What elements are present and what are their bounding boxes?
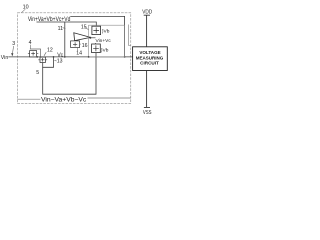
junction inner box left on wire — [88, 56, 90, 58]
svg-text:16: 16 — [82, 43, 88, 49]
wire main horizontal — [8, 56, 132, 58]
wire mid node into lower source — [95, 43, 97, 44]
top chain output wire — [70, 16, 124, 57]
wire right jog — [129, 25, 131, 46]
source box B (below wire) — [40, 57, 45, 62]
leader for 12 — [44, 52, 46, 56]
svg-text:MEASURING: MEASURING — [136, 55, 164, 61]
offset source box Va — [71, 41, 80, 48]
svg-text:)Vb: )Vb — [102, 29, 110, 35]
op-amp triangle — [74, 33, 91, 41]
svg-text:4: 4 — [29, 40, 32, 46]
junction after box A — [36, 56, 38, 58]
svg-text:5: 5 — [36, 70, 39, 76]
svg-text:VSS: VSS — [143, 110, 152, 116]
source box A (on wire) — [30, 51, 37, 57]
wire from box B down, branch to wire — [43, 57, 54, 67]
bypass wire over box A — [30, 49, 41, 57]
svg-text:Vc: Vc — [57, 52, 63, 58]
svg-text:10: 10 — [23, 5, 29, 11]
svg-text:CIRCUIT: CIRCUIT — [140, 61, 159, 67]
voltage measuring circuit box — [133, 47, 168, 71]
svg-text:14: 14 — [76, 51, 82, 57]
amp output node dot — [89, 37, 91, 39]
inner solid box around sources — [89, 25, 125, 57]
leader for label 10 — [21, 9, 25, 13]
svg-text:)Vb: )Vb — [101, 48, 109, 54]
lower loop wire — [43, 53, 96, 95]
leader for 11 — [63, 27, 66, 30]
wire bottom edge left segment — [18, 98, 41, 100]
source box +Vb bottom — [92, 44, 101, 53]
leader arrow for 3 — [13, 46, 14, 53]
svg-text:Vin+Va+Vb+Vc+Vd: Vin+Va+Vb+Vc+Vd — [28, 16, 71, 23]
svg-text:Vin+Vc: Vin+Vc — [96, 38, 112, 44]
svg-text:VOLTAGE: VOLTAGE — [139, 50, 161, 56]
svg-text:11: 11 — [58, 26, 63, 32]
svg-text:15: 15 — [81, 24, 87, 30]
svg-text:Vin−Va+Vb−Vc: Vin−Va+Vb−Vc — [41, 96, 86, 103]
leader for 13 — [54, 59, 56, 62]
leader for 16 — [79, 44, 81, 45]
leader for 15 — [85, 28, 89, 30]
source box +Vb top — [92, 26, 101, 34]
svg-text:Vin: Vin — [1, 55, 9, 61]
VSS rail — [144, 71, 150, 108]
svg-text:VDD: VDD — [142, 10, 152, 16]
dashed block 10 outline — [18, 13, 131, 104]
wire bottom edge right segment — [88, 97, 131, 99]
leader for 4 — [30, 45, 32, 49]
leader for 14 — [77, 48, 79, 51]
svg-text:13: 13 — [57, 59, 63, 65]
upper loop wire node 11 — [37, 22, 97, 57]
svg-text:12: 12 — [47, 48, 53, 54]
